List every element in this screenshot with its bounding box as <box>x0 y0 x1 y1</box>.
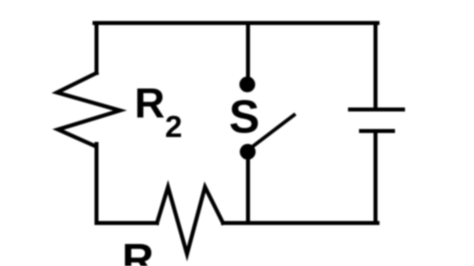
wire left-bottom lead <box>95 144 99 223</box>
wire right-bottom lead <box>374 131 378 223</box>
resistor R1 <box>157 187 223 254</box>
wire bottom-left <box>97 221 158 225</box>
node switch upper contact <box>239 77 255 93</box>
node switch lower contact <box>240 144 256 160</box>
wire top <box>95 21 378 25</box>
battery plate positive <box>350 108 403 112</box>
wire switch top lead <box>246 23 250 80</box>
svg-text:R: R <box>122 235 154 266</box>
svg-text:2: 2 <box>165 109 182 144</box>
svg-text:S: S <box>229 91 260 143</box>
svg-text:R: R <box>135 80 165 127</box>
wire right-top lead <box>374 23 378 110</box>
switch S lever <box>250 115 294 149</box>
wire left-top lead <box>95 23 99 73</box>
wire switch bottom lead <box>246 155 250 223</box>
wire bottom-right <box>223 221 378 225</box>
battery plate negative <box>361 129 393 133</box>
resistor R2 <box>57 73 120 146</box>
